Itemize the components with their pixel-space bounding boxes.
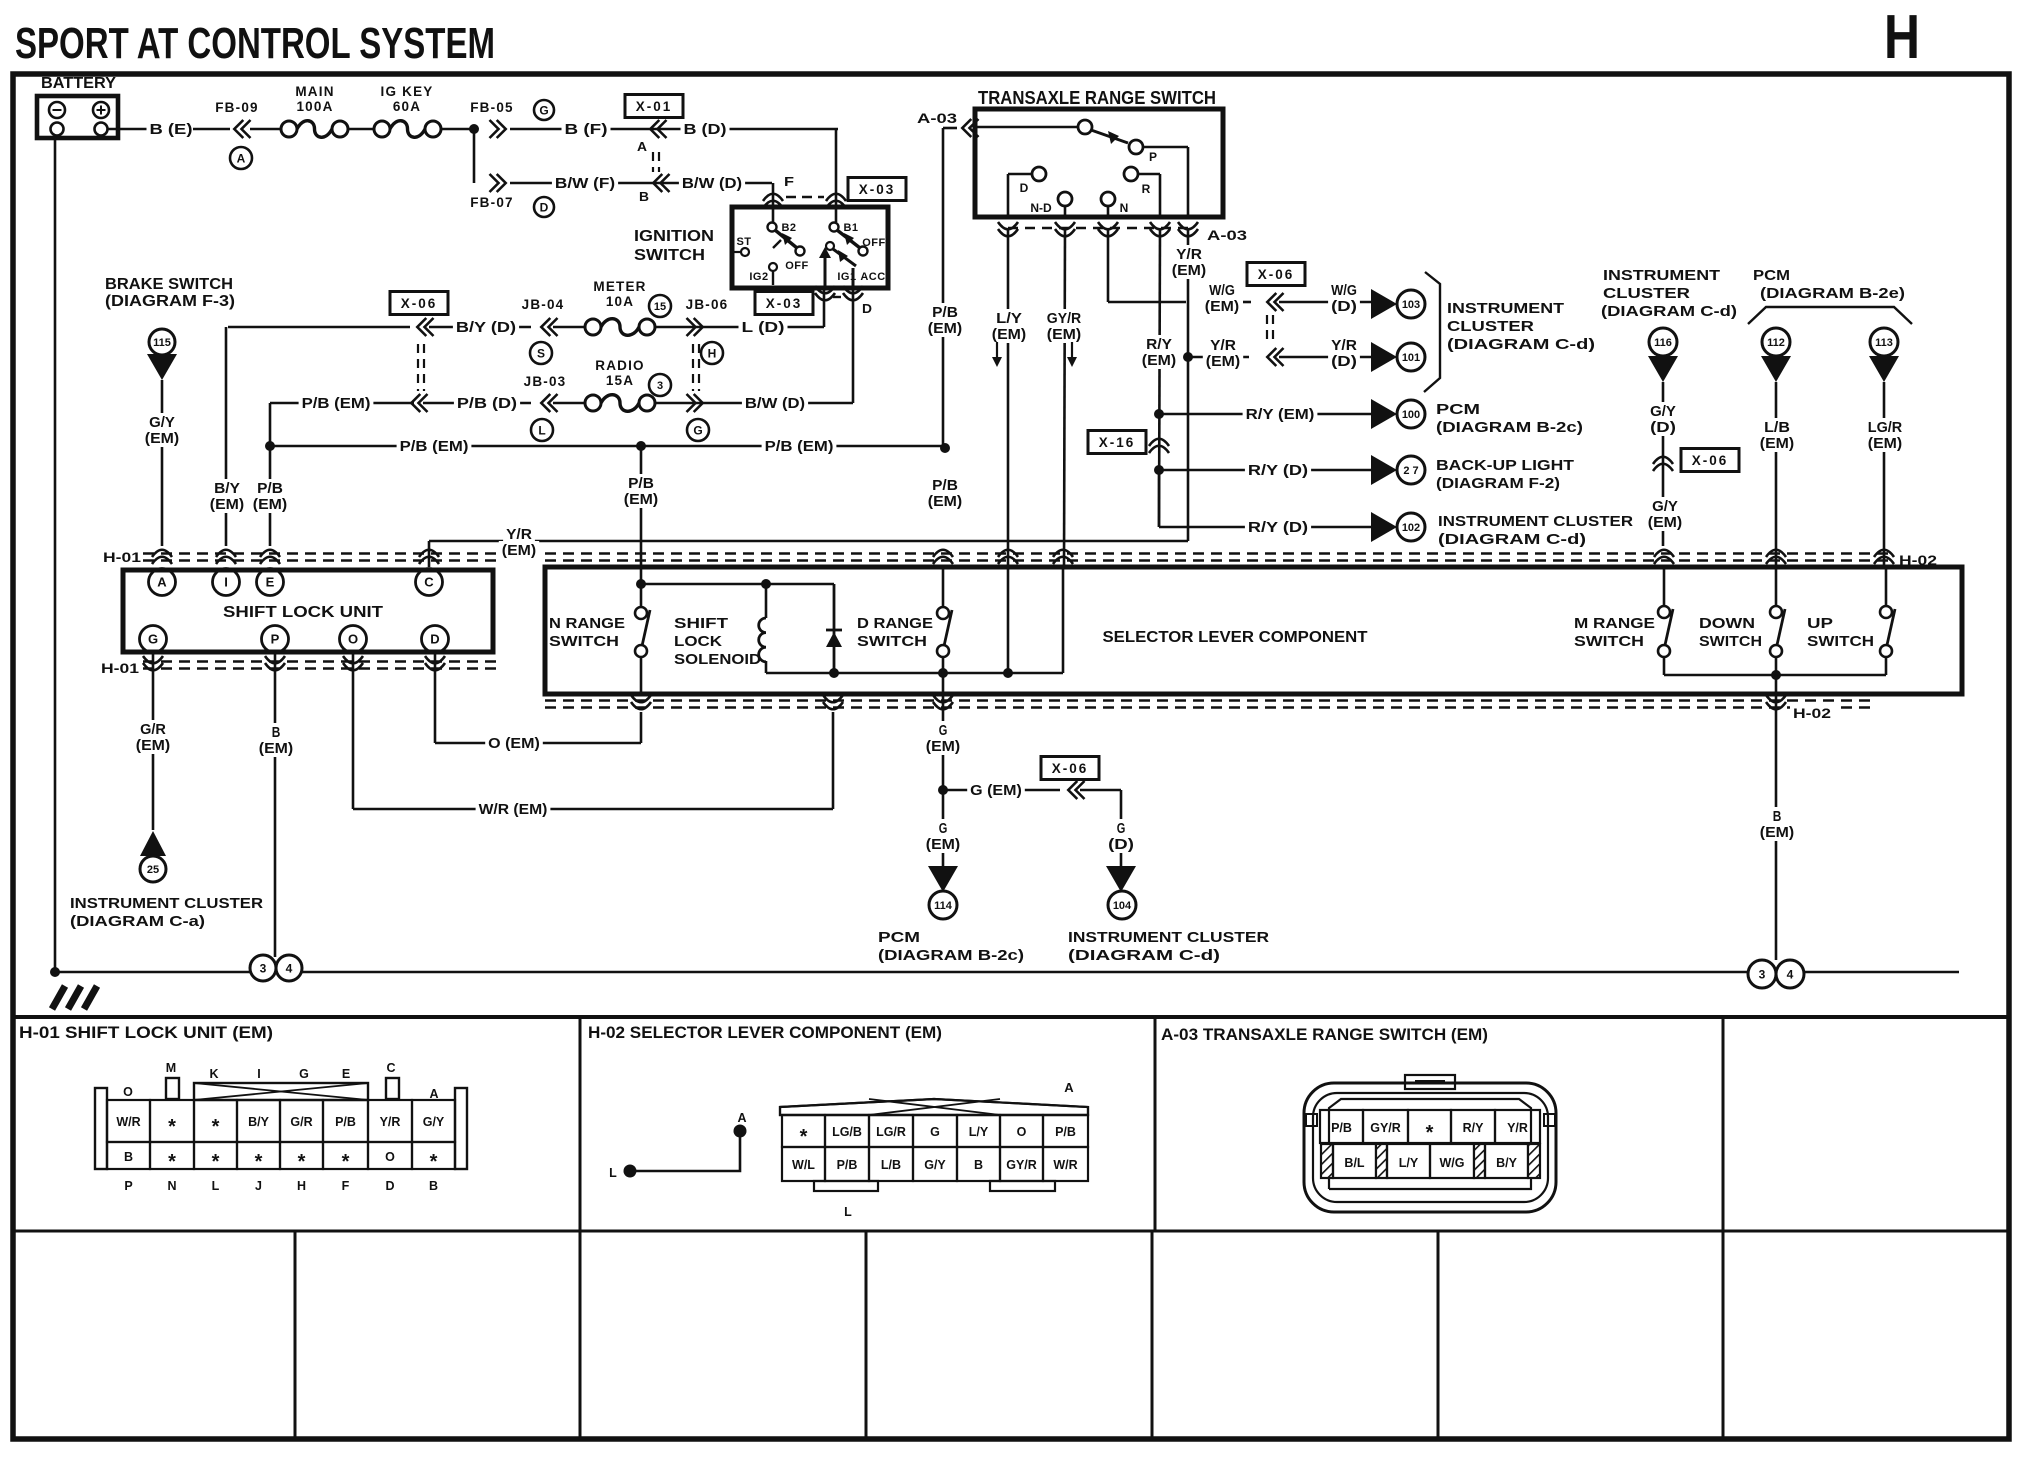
svg-text:X-06: X-06 bbox=[1052, 761, 1089, 776]
svg-text:W/R: W/R bbox=[116, 1115, 140, 1129]
svg-text:N-D: N-D bbox=[1030, 201, 1052, 215]
circle 114 bbox=[929, 891, 957, 919]
connector X-06 label box left bbox=[390, 292, 448, 315]
svg-text:G: G bbox=[1117, 821, 1126, 837]
svg-text:SWITCH: SWITCH bbox=[1807, 633, 1874, 650]
svg-text:(EM): (EM) bbox=[928, 494, 963, 510]
arrow from 113 bbox=[1869, 356, 1899, 382]
connector X-06 chevron G/Y bbox=[1653, 457, 1673, 464]
connector H-01 pinout bbox=[95, 1088, 107, 1169]
svg-text:W/G: W/G bbox=[1331, 283, 1357, 299]
svg-text:R/Y: R/Y bbox=[1146, 337, 1172, 353]
svg-text:W/L: W/L bbox=[792, 1158, 815, 1172]
svg-text:G: G bbox=[939, 821, 948, 837]
svg-text:P/B: P/B bbox=[335, 1115, 356, 1129]
arrow from 112 bbox=[1761, 356, 1791, 382]
svg-text:F: F bbox=[342, 1179, 350, 1193]
junction node bbox=[469, 124, 479, 134]
svg-text:P: P bbox=[1149, 150, 1157, 164]
svg-text:(DIAGRAM B-2c): (DIAGRAM B-2c) bbox=[1436, 419, 1583, 436]
wire B(EM) right to ground bus bbox=[1775, 694, 1778, 960]
arrow to circle 103 bbox=[1371, 289, 1397, 319]
svg-text:3: 3 bbox=[260, 961, 267, 975]
svg-text:2 7: 2 7 bbox=[1403, 465, 1418, 477]
circle 3 right bbox=[1748, 960, 1776, 988]
svg-text:LG/R: LG/R bbox=[1868, 420, 1903, 436]
svg-text:D: D bbox=[430, 632, 439, 647]
svg-text:B/Y: B/Y bbox=[214, 481, 240, 497]
wire B/W(D) bbox=[679, 174, 745, 192]
svg-text:METER: METER bbox=[593, 279, 646, 294]
svg-text:101: 101 bbox=[1402, 352, 1420, 364]
wire W/R(EM) from O terminal to solenoid node bbox=[352, 652, 355, 809]
svg-text:B: B bbox=[272, 725, 281, 741]
svg-text:Y/R: Y/R bbox=[1210, 338, 1236, 354]
wire P/B(EM) to N range switch bbox=[640, 446, 643, 567]
svg-text:*: * bbox=[168, 1151, 176, 1173]
svg-text:(EM): (EM) bbox=[1172, 263, 1207, 279]
svg-text:LG/R: LG/R bbox=[876, 1125, 906, 1139]
terminal G bbox=[140, 626, 167, 653]
svg-text:CLUSTER: CLUSTER bbox=[1447, 318, 1534, 335]
arrow small L/Y bbox=[996, 342, 998, 360]
svg-text:(EM): (EM) bbox=[624, 492, 659, 508]
svg-text:(EM): (EM) bbox=[1206, 354, 1241, 370]
transaxle switch wiper arm bbox=[1091, 130, 1128, 143]
svg-text:INSTRUMENT CLUSTER: INSTRUMENT CLUSTER bbox=[1068, 929, 1269, 946]
svg-text:L (D): L (D) bbox=[742, 320, 785, 336]
svg-text:(EM): (EM) bbox=[1760, 436, 1795, 452]
svg-text:H: H bbox=[1884, 3, 1920, 72]
svg-text:FB-05: FB-05 bbox=[470, 100, 514, 115]
circle 4 left bbox=[276, 955, 302, 981]
svg-text:BACK-UP LIGHT: BACK-UP LIGHT bbox=[1436, 457, 1574, 474]
connector A-03 row below transaxle switch bbox=[1008, 227, 1188, 229]
battery negative wire bbox=[54, 138, 57, 972]
svg-text:I: I bbox=[257, 1067, 260, 1081]
svg-text:(DIAGRAM C-d): (DIAGRAM C-d) bbox=[1447, 336, 1595, 353]
svg-text:(DIAGRAM C-d): (DIAGRAM C-d) bbox=[1438, 531, 1586, 548]
svg-text:*: * bbox=[298, 1151, 306, 1173]
svg-text:INSTRUMENT: INSTRUMENT bbox=[1447, 300, 1564, 317]
circle 104 bbox=[1108, 891, 1136, 919]
svg-text:INSTRUMENT: INSTRUMENT bbox=[1603, 267, 1720, 284]
wire P/B(EM) first row bbox=[270, 402, 414, 405]
connector X-06 chevron B/Y bbox=[417, 318, 426, 336]
svg-text:Y/R: Y/R bbox=[1176, 247, 1202, 263]
svg-text:*: * bbox=[430, 1151, 438, 1173]
svg-text:P/B: P/B bbox=[1331, 1121, 1352, 1135]
selector lever component box bbox=[545, 567, 1962, 694]
svg-text:H-02 SELECTOR LEVER COMPONE: H-02 SELECTOR LEVER COMPONENT (EM) bbox=[588, 1023, 942, 1042]
junction G branch bbox=[938, 785, 948, 795]
terminal E bbox=[257, 569, 284, 596]
wire G(EM) from D range to PCM 114 bbox=[942, 694, 945, 866]
svg-text:H-01: H-01 bbox=[101, 661, 140, 676]
svg-text:(EM): (EM) bbox=[1142, 353, 1177, 369]
svg-text:G: G bbox=[939, 723, 948, 739]
wire L/Y inside box bbox=[1007, 567, 1010, 673]
wire G(D) to 104 bbox=[1080, 789, 1121, 792]
terminal O bbox=[340, 626, 367, 653]
connector X-03 label box lower bbox=[755, 292, 813, 315]
wire L/Y(EM) from D terminal bbox=[1007, 228, 1010, 567]
connector X-06 label box right bbox=[1681, 449, 1739, 472]
svg-text:W/R: W/R bbox=[1053, 1158, 1077, 1172]
wire P/B(EM) from A-03 down bbox=[942, 128, 945, 446]
svg-text:E: E bbox=[342, 1067, 350, 1081]
svg-text:102: 102 bbox=[1402, 522, 1420, 534]
svg-text:4: 4 bbox=[286, 961, 293, 975]
svg-text:A-03: A-03 bbox=[1207, 228, 1248, 243]
svg-text:G/R: G/R bbox=[140, 722, 166, 738]
connector X-06 dashed link bbox=[1266, 315, 1268, 342]
connector X-06 chevron Y/R bbox=[1267, 348, 1276, 366]
svg-text:LOCK: LOCK bbox=[674, 633, 722, 650]
svg-text:FB-09: FB-09 bbox=[215, 100, 259, 115]
connector H-02 row bottom bbox=[545, 699, 1870, 701]
svg-text:B (D): B (D) bbox=[684, 122, 727, 138]
svg-text:SHIFT: SHIFT bbox=[674, 615, 728, 632]
svg-text:G: G bbox=[693, 423, 702, 437]
terminal C bbox=[416, 569, 443, 596]
svg-text:PCM: PCM bbox=[1753, 267, 1790, 284]
svg-text:H: H bbox=[297, 1179, 306, 1193]
svg-text:N: N bbox=[1120, 201, 1129, 215]
connector X-06 chevron G bbox=[1068, 781, 1077, 799]
svg-text:G (EM): G (EM) bbox=[970, 783, 1022, 799]
wire Y/R(EM) from P terminal bbox=[1187, 228, 1190, 541]
svg-text:(D): (D) bbox=[1108, 837, 1134, 853]
wire R/Y(EM) to 100 bbox=[1159, 413, 1371, 416]
circle 100 bbox=[1397, 400, 1425, 428]
circle 113 bbox=[1870, 328, 1898, 356]
terminal D bbox=[422, 626, 449, 653]
wire G(EM) branch to X-06 bbox=[943, 789, 1060, 792]
connector X-03 label box upper bbox=[848, 178, 906, 201]
arrow to circle 102 bbox=[1371, 512, 1397, 542]
svg-text:(DIAGRAM B-2c): (DIAGRAM B-2c) bbox=[878, 947, 1024, 964]
wire G/Y(EM) down to shift lock A bbox=[161, 380, 164, 546]
svg-text:D: D bbox=[540, 200, 549, 214]
terminal N bbox=[1101, 192, 1115, 206]
connector X-16 label box bbox=[1088, 431, 1146, 454]
circle 3 fuse bbox=[649, 374, 671, 396]
wire Y/R(EM) horizontal to shift lock C bbox=[429, 540, 1188, 543]
svg-text:B: B bbox=[1773, 809, 1782, 825]
terminal R bbox=[1124, 167, 1138, 181]
svg-text:3: 3 bbox=[657, 380, 663, 392]
svg-text:IG2: IG2 bbox=[749, 271, 768, 283]
svg-text:(EM): (EM) bbox=[1868, 436, 1903, 452]
svg-text:A: A bbox=[237, 151, 246, 165]
svg-text:O: O bbox=[123, 1085, 133, 1099]
svg-text:G: G bbox=[539, 103, 548, 117]
svg-text:ACC: ACC bbox=[860, 271, 885, 283]
svg-text:114: 114 bbox=[934, 900, 953, 912]
connector X-03 chevrons below ignition switch bbox=[815, 293, 835, 300]
wire to ignition F terminal bbox=[772, 183, 775, 222]
junction with circle G bbox=[694, 394, 703, 412]
svg-text:X-01: X-01 bbox=[636, 99, 673, 114]
circle 101 bbox=[1397, 343, 1425, 371]
svg-text:(EM): (EM) bbox=[1648, 515, 1683, 531]
svg-text:(EM): (EM) bbox=[253, 497, 288, 513]
svg-text:L: L bbox=[609, 1166, 617, 1180]
svg-text:(D): (D) bbox=[1331, 354, 1357, 370]
terminal A bbox=[149, 569, 176, 596]
svg-text:JB-03: JB-03 bbox=[524, 374, 567, 389]
svg-text:X-03: X-03 bbox=[859, 182, 896, 197]
svg-text:UP: UP bbox=[1807, 615, 1833, 632]
svg-text:G/Y: G/Y bbox=[924, 1158, 946, 1172]
connector H-02 pinout bbox=[780, 1099, 1088, 1115]
arrow to circle 114 bbox=[928, 866, 958, 892]
wire W/G from N terminal bbox=[1107, 228, 1110, 302]
terminal D bbox=[1032, 167, 1046, 181]
connector A-03 pinout bbox=[1304, 1083, 1556, 1212]
svg-text:INSTRUMENT CLUSTER: INSTRUMENT CLUSTER bbox=[1438, 513, 1633, 530]
svg-text:*: * bbox=[255, 1151, 263, 1173]
wire G/Y down from 116 bbox=[1662, 382, 1665, 546]
svg-text:IG KEY: IG KEY bbox=[381, 84, 434, 99]
svg-text:S: S bbox=[537, 346, 545, 360]
connector X-01 pin A chevron bbox=[650, 120, 659, 138]
svg-text:P/B: P/B bbox=[932, 478, 958, 494]
wire L(D) to ignition IG1 bbox=[655, 326, 824, 329]
svg-text:P/B: P/B bbox=[837, 1158, 858, 1172]
svg-text:F: F bbox=[784, 174, 794, 189]
svg-text:L: L bbox=[538, 423, 545, 437]
svg-text:TRANSAXLE RANGE SWITCH: TRANSAXLE RANGE SWITCH bbox=[978, 88, 1216, 108]
svg-text:X-06: X-06 bbox=[1258, 267, 1295, 282]
svg-text:L/Y: L/Y bbox=[969, 1125, 989, 1139]
svg-text:P/B (D): P/B (D) bbox=[457, 396, 517, 412]
svg-text:B2: B2 bbox=[781, 222, 796, 234]
svg-text:112: 112 bbox=[1767, 337, 1785, 349]
svg-text:N: N bbox=[167, 1179, 176, 1193]
connector JB dashed link bbox=[692, 344, 694, 391]
wire B(F) bbox=[510, 128, 838, 131]
svg-text:(EM): (EM) bbox=[502, 543, 537, 559]
svg-text:A: A bbox=[1064, 1080, 1074, 1095]
connector H-02 row top bbox=[545, 552, 1890, 554]
transaxle switch common wire bbox=[977, 126, 1078, 129]
svg-text:P/B: P/B bbox=[932, 305, 958, 321]
svg-text:W/R (EM): W/R (EM) bbox=[479, 802, 548, 818]
circle 102 bbox=[1397, 513, 1425, 541]
svg-text:P/B (EM): P/B (EM) bbox=[765, 439, 834, 455]
svg-text:(EM): (EM) bbox=[259, 741, 294, 757]
wire G/Y(EM) bbox=[1649, 497, 1681, 515]
svg-text:X-03: X-03 bbox=[766, 296, 803, 311]
wire bbox=[553, 326, 585, 329]
connector X-06 dashed link left bbox=[417, 344, 419, 391]
svg-text:E: E bbox=[266, 575, 275, 590]
svg-text:*: * bbox=[212, 1116, 220, 1138]
wire LG/R(EM) down from 113 bbox=[1883, 382, 1886, 567]
svg-text:B: B bbox=[974, 1158, 983, 1172]
svg-text:(D): (D) bbox=[1331, 299, 1357, 315]
svg-text:60A: 60A bbox=[393, 99, 421, 114]
ground symbol bbox=[52, 986, 65, 1009]
connector X-16 chevron bbox=[1149, 439, 1169, 446]
svg-text:B/Y: B/Y bbox=[248, 1115, 270, 1129]
wire Y/R(D) to 101 bbox=[1279, 356, 1371, 359]
svg-text:H-01 SHIFT LOCK UNIT (EM): H-01 SHIFT LOCK UNIT (EM) bbox=[19, 1023, 273, 1042]
svg-text:LG/B: LG/B bbox=[832, 1125, 862, 1139]
connector X-06 label box lower bbox=[1041, 757, 1099, 780]
svg-text:D RANGE: D RANGE bbox=[857, 615, 933, 632]
svg-text:SPORT AT CONTROL SYSTEM: SPORT AT CONTROL SYSTEM bbox=[15, 19, 495, 68]
connector X-03 chevrons above ignition switch bbox=[763, 194, 783, 201]
svg-text:D: D bbox=[385, 1179, 394, 1193]
svg-text:B/W (D): B/W (D) bbox=[745, 396, 805, 412]
circle 112 bbox=[1762, 328, 1790, 356]
svg-text:B1: B1 bbox=[843, 222, 858, 234]
svg-text:D: D bbox=[1020, 181, 1029, 195]
bracket PCM group bbox=[1748, 307, 1912, 324]
svg-text:JB-06: JB-06 bbox=[686, 297, 729, 312]
svg-text:M RANGE: M RANGE bbox=[1574, 615, 1655, 632]
svg-text:(DIAGRAM C-d): (DIAGRAM C-d) bbox=[1068, 947, 1220, 964]
svg-text:A: A bbox=[637, 139, 648, 154]
svg-text:B/W (F): B/W (F) bbox=[555, 176, 615, 192]
svg-text:R/Y: R/Y bbox=[1463, 1121, 1485, 1135]
svg-text:INSTRUMENT CLUSTER: INSTRUMENT CLUSTER bbox=[70, 895, 263, 912]
wire P/B(EM) up from shift lock E bbox=[269, 403, 272, 546]
arrow to circle 104 bbox=[1106, 866, 1136, 892]
svg-text:(EM): (EM) bbox=[210, 497, 245, 513]
svg-text:(DIAGRAM B-2e): (DIAGRAM B-2e) bbox=[1760, 285, 1905, 302]
arrow from 115 bbox=[147, 354, 177, 380]
wire bbox=[348, 128, 374, 131]
switch common bus bbox=[1664, 674, 1886, 677]
svg-text:B/Y: B/Y bbox=[1496, 1156, 1518, 1170]
svg-text:H: H bbox=[708, 346, 717, 360]
wire R/Y(D) to 27 bbox=[1159, 469, 1371, 472]
svg-text:(DIAGRAM F-3): (DIAGRAM F-3) bbox=[105, 293, 235, 310]
wire node to D range bbox=[834, 672, 1063, 675]
svg-text:N RANGE: N RANGE bbox=[549, 615, 625, 632]
shift lock unit bbox=[123, 570, 493, 652]
svg-text:P/B: P/B bbox=[628, 476, 654, 492]
svg-text:(EM): (EM) bbox=[992, 327, 1027, 343]
svg-text:BRAKE SWITCH: BRAKE SWITCH bbox=[105, 276, 233, 293]
junction R/Y(D) row 27 bbox=[1154, 465, 1164, 475]
arrow small GY/R bbox=[1071, 342, 1073, 360]
circle A bbox=[230, 147, 252, 169]
svg-text:*: * bbox=[800, 1126, 808, 1148]
wire G/R(EM) to circle 25 bbox=[152, 652, 155, 830]
svg-text:MAIN: MAIN bbox=[295, 84, 334, 99]
svg-text:P: P bbox=[124, 1179, 132, 1193]
wire B(D) bbox=[681, 120, 730, 138]
svg-text:(EM): (EM) bbox=[926, 739, 961, 755]
terminal P bbox=[262, 626, 289, 653]
svg-text:(EM): (EM) bbox=[145, 431, 180, 447]
wire B(D) down to ignition B1 bbox=[835, 129, 838, 222]
svg-text:(EM): (EM) bbox=[1205, 299, 1240, 315]
wire FB-07 branch bbox=[473, 129, 476, 183]
svg-text:GY/R: GY/R bbox=[1006, 1158, 1037, 1172]
svg-text:M: M bbox=[166, 1061, 176, 1075]
svg-text:L: L bbox=[212, 1179, 220, 1193]
svg-text:(EM): (EM) bbox=[928, 321, 963, 337]
svg-text:O (EM): O (EM) bbox=[488, 736, 540, 752]
svg-text:SHIFT LOCK UNIT: SHIFT LOCK UNIT bbox=[223, 604, 383, 621]
ground bus bbox=[55, 971, 250, 974]
svg-text:116: 116 bbox=[1654, 337, 1672, 349]
svg-text:B/Y (D): B/Y (D) bbox=[456, 320, 516, 336]
svg-text:PCM: PCM bbox=[878, 929, 920, 946]
svg-text:4: 4 bbox=[1787, 967, 1794, 981]
wire G(EM) continue bbox=[936, 819, 951, 837]
svg-text:G/Y: G/Y bbox=[149, 415, 175, 431]
svg-text:G/R: G/R bbox=[290, 1115, 312, 1129]
svg-text:SELECTOR LEVER COMPONENT: SELECTOR LEVER COMPONENT bbox=[1103, 629, 1368, 646]
svg-text:OFF: OFF bbox=[862, 237, 886, 249]
svg-text:A-03 TRANSAXLE RANGE SWITCH: A-03 TRANSAXLE RANGE SWITCH (EM) bbox=[1161, 1025, 1488, 1044]
circle 3 left bbox=[250, 955, 276, 981]
wire B(EM) to ground bus bbox=[274, 652, 277, 957]
wire P/B(EM) label to D range bbox=[929, 476, 961, 494]
svg-text:A: A bbox=[157, 575, 167, 590]
svg-text:A: A bbox=[737, 1111, 746, 1125]
svg-text:W/G: W/G bbox=[1209, 283, 1235, 299]
svg-text:Y/R: Y/R bbox=[1507, 1121, 1528, 1135]
circle 116 bbox=[1649, 328, 1677, 356]
terminal N-D bbox=[1058, 192, 1072, 206]
svg-text:103: 103 bbox=[1402, 299, 1420, 311]
node junction bbox=[829, 668, 839, 678]
svg-text:J: J bbox=[255, 1179, 262, 1193]
terminal I bbox=[213, 569, 240, 596]
svg-text:*: * bbox=[168, 1116, 176, 1138]
wire bbox=[553, 402, 585, 405]
svg-text:115: 115 bbox=[153, 337, 171, 349]
svg-text:P: P bbox=[271, 632, 280, 647]
svg-text:G: G bbox=[299, 1067, 309, 1081]
svg-text:P/B: P/B bbox=[1055, 1125, 1076, 1139]
svg-text:SOLENOID: SOLENOID bbox=[674, 651, 761, 668]
svg-text:B (F): B (F) bbox=[565, 122, 608, 138]
svg-text:SWITCH: SWITCH bbox=[549, 633, 619, 650]
svg-text:FB-07: FB-07 bbox=[470, 195, 514, 210]
circle 25 bbox=[140, 856, 166, 882]
bracket instrument cluster group bbox=[1424, 272, 1440, 392]
arrow to circle 27 bbox=[1371, 455, 1397, 485]
svg-text:ST: ST bbox=[736, 236, 751, 248]
svg-text:L/B: L/B bbox=[1764, 420, 1790, 436]
svg-text:G/Y: G/Y bbox=[1650, 404, 1676, 420]
svg-text:L: L bbox=[844, 1205, 852, 1219]
junction P/B(EM) bbox=[265, 441, 275, 451]
connector X-06 label box bbox=[1247, 263, 1305, 286]
wire B/Y(D) row bbox=[228, 326, 410, 329]
svg-text:W/G: W/G bbox=[1440, 1156, 1465, 1170]
svg-text:P/B: P/B bbox=[257, 481, 283, 497]
svg-text:JB-04: JB-04 bbox=[522, 297, 565, 312]
svg-text:15: 15 bbox=[654, 301, 666, 313]
svg-text:G/Y: G/Y bbox=[1652, 499, 1678, 515]
svg-text:G: G bbox=[930, 1125, 940, 1139]
wire GY/R inside box bbox=[1062, 567, 1065, 673]
circle 4 right bbox=[1776, 960, 1804, 988]
svg-text:25: 25 bbox=[147, 864, 159, 876]
connector X-06 chevron P/B bbox=[411, 394, 420, 412]
svg-text:H-01: H-01 bbox=[103, 550, 142, 565]
